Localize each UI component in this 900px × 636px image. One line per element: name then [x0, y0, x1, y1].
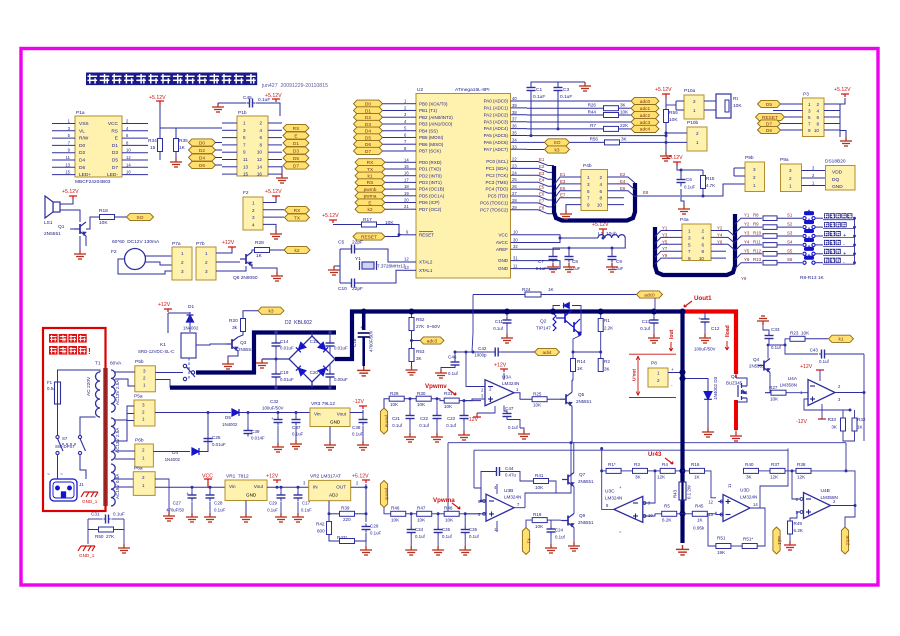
warning text 注意安全!: [49, 346, 87, 355]
svg-text:470uF/50: 470uF/50: [166, 508, 184, 513]
ground (C13): [648, 334, 660, 343]
svg-text:0.1uf: 0.1uf: [442, 534, 453, 539]
svg-text:14: 14: [404, 157, 409, 162]
svg-text:R24: R24: [522, 287, 531, 292]
svg-text:22pF: 22pF: [352, 286, 363, 292]
svg-text:3K: 3K: [621, 137, 628, 142]
svg-text:5: 5: [587, 189, 590, 194]
switch row Y2 R9 S2: [735, 227, 762, 233]
wire U3D output: [750, 449, 788, 509]
connector P1b: [237, 116, 268, 176]
svg-text:9: 9: [688, 256, 691, 261]
resistor R20 3k: [241, 319, 246, 332]
svg-text:C46: C46: [448, 355, 457, 360]
svg-text:R9: R9: [753, 222, 759, 227]
regulator VR3 79L12: [310, 408, 350, 427]
ground (C16): [357, 366, 370, 376]
resistor R1*: [606, 468, 621, 473]
svg-text:D5: D5: [293, 156, 299, 162]
svg-text:32: 32: [513, 244, 518, 249]
svg-text:C10: C10: [338, 286, 347, 292]
resistor R24 1K: [525, 292, 541, 297]
capacitor C9: [608, 254, 617, 263]
svg-text:R14: R14: [577, 359, 586, 364]
svg-text:C19: C19: [280, 370, 289, 375]
svg-text:37: 37: [512, 117, 517, 122]
transformer secondary winding 1: [111, 370, 115, 412]
P8 wires: [668, 372, 683, 374]
svg-text:R27: R27: [769, 385, 778, 390]
svg-text:VL: VL: [79, 128, 85, 134]
svg-text:R18: R18: [99, 208, 108, 214]
net tag E (P1b): [283, 132, 309, 139]
svg-text:k2: k2: [367, 207, 372, 213]
svg-text:1: 1: [696, 140, 699, 145]
net tag D1 (P1b): [283, 139, 309, 146]
capacitor C19: [272, 371, 281, 380]
svg-text:12K: 12K: [770, 475, 779, 480]
svg-text:2: 2: [789, 176, 792, 181]
ground under F2: [270, 230, 282, 239]
wire U3B out: [514, 507, 525, 509]
svg-text:0.1uF: 0.1uF: [533, 94, 545, 100]
svg-text:3: 3: [252, 215, 255, 220]
svg-text:0.00uF: 0.00uF: [334, 377, 348, 382]
capacitor C13: [650, 317, 659, 326]
capacitor C37: [292, 417, 301, 426]
wire adc0 node down to bus: [654, 298, 656, 311]
svg-text:R45: R45: [695, 504, 704, 509]
connector P7a: [172, 247, 192, 280]
svg-text:20: 20: [404, 198, 409, 203]
svg-text:PC1 (SDA): PC1 (SDA): [486, 166, 509, 171]
svg-text:R55: R55: [669, 110, 678, 116]
svg-text:25: 25: [512, 177, 517, 182]
svg-text:100uF/50V: 100uF/50V: [694, 347, 716, 352]
svg-text:Y5: Y5: [662, 239, 668, 244]
resistor R51*: [742, 544, 757, 549]
svg-text:P7a: P7a: [172, 241, 181, 247]
svg-text:8: 8: [599, 196, 602, 201]
svg-text:1K: 1K: [694, 475, 701, 480]
U out dimension annotation (red): [629, 354, 676, 397]
ground (C46): [435, 369, 447, 378]
capacitor C44 0.47u feedback: [494, 467, 502, 476]
svg-text:8: 8: [259, 142, 262, 147]
svg-text:10K: 10K: [417, 402, 426, 407]
svg-text:60*60 DC12V 130mA: 60*60 DC12V 130mA: [112, 239, 160, 245]
wire PA5 long line to R55 node: [527, 135, 666, 137]
net tag pwmb (vertical): [380, 481, 387, 508]
svg-text:+: +: [360, 325, 363, 330]
capacitor C7: [549, 254, 558, 263]
svg-text:14: 14: [753, 502, 758, 507]
svg-text:15: 15: [243, 172, 249, 177]
svg-text:1: 1: [252, 201, 255, 206]
capacitor C26 0.1uF: [362, 524, 371, 533]
op-amp U4A LM358N: [808, 380, 835, 406]
svg-text:C1: C1: [536, 87, 542, 93]
svg-text:Y3: Y3: [662, 232, 668, 237]
net tag D6 (P1b): [189, 161, 216, 168]
svg-text:12: 12: [257, 157, 263, 162]
svg-text:R2: R2: [604, 359, 610, 364]
wire PA0 line to adc0: [527, 100, 631, 102]
svg-text:17: 17: [404, 177, 409, 182]
svg-text:R51*: R51*: [743, 537, 753, 542]
wire U3B +input: [465, 513, 486, 515]
svg-text:R17: R17: [363, 217, 372, 223]
ground (C17): [292, 513, 304, 522]
svg-text:VSS: VSS: [79, 121, 89, 127]
svg-text:D7: D7: [293, 163, 299, 169]
svg-text:U4A: U4A: [788, 376, 798, 382]
svg-text:+: +: [186, 491, 189, 496]
ground (C33) inverted: [757, 316, 769, 325]
svg-text:PD3 (INT1): PD3 (INT1): [419, 180, 442, 185]
ground (P6a mid): [163, 512, 175, 521]
resistor R16 1K: [690, 468, 705, 473]
diode D4 1N4002: [153, 451, 190, 453]
wire feedback top 2: [474, 449, 788, 451]
svg-text:1: 1: [587, 175, 590, 180]
svg-text:E6: E6: [620, 186, 626, 191]
svg-text:D1: D1: [112, 143, 118, 149]
svg-text:+5.12V: +5.12V: [655, 87, 672, 93]
svg-text:F1: F1: [47, 380, 53, 385]
svg-text:D6: D6: [79, 165, 85, 171]
svg-text:+12V: +12V: [158, 302, 171, 308]
svg-text:D2: D2: [199, 148, 205, 154]
svg-text:35: 35: [512, 131, 517, 136]
capacitor C39 0.014F: [244, 428, 253, 437]
ground (C35): [432, 546, 444, 555]
svg-text:R12: R12: [753, 248, 762, 253]
svg-text:0.1uF: 0.1uF: [370, 531, 382, 536]
svg-text:3K: 3K: [416, 356, 423, 361]
net tag k1 (vertical bottom): [522, 528, 529, 555]
svg-text:1: 1: [789, 184, 792, 189]
svg-text:16: 16: [257, 172, 263, 177]
svg-text:2: 2: [181, 260, 184, 265]
svg-text:11: 11: [66, 155, 71, 160]
net tag adc0 (R24): [637, 291, 663, 298]
svg-text:D6: D6: [766, 128, 772, 134]
svg-text:-12V: -12V: [467, 417, 478, 423]
net tag D7 (P1b): [283, 162, 309, 169]
resistor R23 10K: [790, 336, 805, 341]
svg-text:0.01uF: 0.01uF: [280, 377, 294, 382]
svg-text:PA2 (ADC2): PA2 (ADC2): [484, 112, 509, 117]
svg-text:0.1uF: 0.1uF: [684, 185, 696, 190]
ground (C24): [545, 544, 557, 553]
svg-text:C38: C38: [352, 425, 361, 430]
svg-text:24: 24: [512, 170, 517, 175]
svg-text:10: 10: [513, 230, 518, 235]
svg-text:DQ: DQ: [832, 177, 839, 183]
ground (C26): [360, 546, 372, 555]
wire U4B +input: [790, 512, 800, 521]
net tag adc1: [631, 105, 659, 112]
U2 reset pin stub: [404, 234, 416, 236]
wire R24 feedback down: [472, 295, 473, 353]
svg-text:U3B: U3B: [504, 488, 513, 494]
svg-text:R15: R15: [706, 176, 715, 181]
wires P5b to contacts: [155, 372, 183, 374]
connector P10b: [687, 127, 707, 151]
svg-text:PB4 (SS): PB4 (SS): [419, 128, 438, 133]
ground (C32): [272, 443, 284, 452]
connector P6a: [133, 472, 155, 496]
switch row Y5 R12 S5: [735, 254, 762, 260]
svg-text:E5: E5: [560, 186, 566, 191]
svg-text:adc2: adc2: [640, 113, 651, 119]
svg-text:9: 9: [587, 203, 590, 208]
net tag SO (speaker drive): [127, 213, 154, 220]
wires P7b: [216, 249, 232, 253]
svg-text:PC4 (TDO): PC4 (TDO): [486, 187, 509, 192]
svg-text:TX: TX: [294, 215, 301, 221]
wire C33 to R23: [768, 338, 770, 340]
net tag adc2: [631, 111, 659, 118]
svg-text:16: 16: [126, 170, 131, 175]
resistor R33 3K: [841, 418, 846, 431]
svg-text:R5: R5: [664, 504, 670, 509]
svg-text:R/W: R/W: [79, 136, 89, 142]
svg-text:10K: 10K: [391, 518, 400, 523]
svg-text:P6a: P6a: [134, 466, 143, 472]
svg-text:R43: R43: [673, 489, 678, 498]
svg-text:P3: P3: [803, 92, 809, 98]
svg-text:0.1uf: 0.1uf: [469, 534, 480, 539]
svg-text:2: 2: [816, 102, 819, 107]
svg-text:AC15V 0.3A: AC15V 0.3A: [115, 473, 120, 499]
svg-text:C25: C25: [212, 435, 221, 440]
P4a pin8 pin10 wires: [711, 250, 726, 252]
svg-text:adc0: adc0: [640, 99, 651, 105]
capacitor C15: [326, 340, 335, 349]
U2 left pin stubs PD: [404, 161, 416, 163]
svg-text:0.1uF: 0.1uF: [301, 508, 312, 513]
svg-text:Y7: Y7: [662, 246, 668, 251]
svg-text:+12V: +12V: [800, 364, 813, 370]
svg-text:R23 10K: R23 10K: [790, 331, 810, 336]
svg-text:GND_1: GND_1: [82, 499, 98, 504]
svg-text:+: +: [843, 251, 846, 257]
svg-text:Ur43: Ur43: [648, 452, 662, 458]
svg-text:U3A: U3A: [502, 375, 512, 381]
svg-text:26: 26: [512, 184, 517, 189]
svg-text:Q4: Q4: [753, 357, 760, 362]
svg-text:0.1uF: 0.1uF: [352, 432, 364, 437]
resistor R25 10K: [532, 397, 547, 402]
bus Y collector left (thick): [655, 214, 735, 275]
svg-text:adc3: adc3: [427, 338, 438, 344]
svg-text:1N4002: 1N4002: [183, 326, 199, 331]
svg-text:adc2: adc2: [846, 536, 851, 546]
svg-text:-12V: -12V: [353, 399, 364, 405]
svg-text:Y4: Y4: [744, 239, 750, 244]
connector P4a: [682, 224, 711, 261]
svg-text:!: !: [88, 346, 91, 356]
svg-text:22: 22: [512, 157, 517, 162]
ground (R50 right): [118, 544, 130, 553]
svg-text:2N5551: 2N5551: [238, 347, 254, 352]
svg-text:adi4: adi4: [542, 350, 551, 356]
svg-text:Vin: Vin: [314, 412, 321, 417]
capacitor C12 100uF/50V: [704, 312, 706, 317]
svg-text:Q1: Q1: [58, 224, 65, 230]
svg-text:C32: C32: [270, 399, 279, 404]
svg-text:D0: D0: [79, 143, 85, 149]
svg-text:4: 4: [816, 109, 819, 114]
svg-text:0.1uF: 0.1uF: [536, 266, 548, 271]
svg-text:LM324N: LM324N: [605, 496, 622, 501]
resistor R26 on PA1: [527, 107, 603, 109]
svg-text:R4: R4: [662, 462, 668, 467]
svg-text:3K: 3K: [635, 475, 642, 480]
svg-text:k3: k3: [268, 309, 273, 315]
junction dots bus end: [680, 309, 686, 315]
wire Q2 collector to bus: [566, 312, 568, 314]
connector P7b: [196, 247, 216, 280]
regulator VR1 7812: [225, 480, 267, 501]
svg-text:PB5 (MOSI): PB5 (MOSI): [419, 135, 444, 140]
svg-text:Y2: Y2: [717, 226, 723, 231]
svg-text:1: 1: [142, 417, 145, 422]
svg-text:6: 6: [259, 135, 262, 140]
svg-text:16: 16: [404, 171, 409, 176]
svg-text:10K: 10K: [535, 485, 544, 490]
svg-text:R48: R48: [444, 506, 453, 511]
svg-text:LM324N: LM324N: [504, 495, 521, 500]
svg-text:0.01uF: 0.01uF: [212, 442, 226, 447]
svg-text:Q8 2N8050: Q8 2N8050: [233, 275, 258, 281]
svg-text:PC2 (TCK): PC2 (TCK): [486, 173, 509, 178]
svg-text:+: +: [698, 316, 701, 321]
svg-text:D5: D5: [112, 158, 118, 164]
thick wire AC line B: [170, 386, 336, 390]
svg-text:2: 2: [259, 121, 262, 126]
svg-text:34: 34: [512, 137, 517, 142]
svg-text:11: 11: [243, 157, 248, 162]
svg-text:6.2K: 6.2K: [794, 528, 804, 533]
capacitor C35: [434, 527, 443, 536]
svg-text:P10a: P10a: [684, 88, 696, 94]
svg-text:C44: C44: [505, 466, 514, 471]
ground (C28): [204, 513, 216, 522]
op-amp U3B LM324N: [486, 494, 514, 521]
svg-text:C27: C27: [173, 501, 182, 506]
svg-text:10K: 10K: [669, 117, 678, 123]
op-amp U3A LM324N: [485, 380, 514, 406]
svg-text:BUZ345: BUZ345: [726, 381, 743, 386]
svg-text:C5: C5: [338, 240, 344, 246]
svg-text:19K: 19K: [717, 550, 726, 555]
svg-text:2: 2: [142, 448, 145, 453]
svg-text:2: 2: [142, 410, 145, 415]
svg-text:Rt: Rt: [733, 96, 738, 102]
wire U3C -input: [643, 471, 655, 503]
resistor R3 3K: [633, 468, 648, 473]
svg-text:P4a: P4a: [680, 217, 689, 223]
svg-text:10: 10: [699, 256, 705, 261]
svg-text:Y1: Y1: [662, 226, 668, 231]
svg-text:1: 1: [688, 229, 691, 234]
svg-text:U'out: U'out: [632, 369, 638, 381]
connector P8: [648, 368, 668, 387]
svg-text:PD7 (OC2): PD7 (OC2): [419, 207, 442, 212]
svg-text:Q5: Q5: [578, 392, 585, 397]
P6b wires: [115, 450, 135, 452]
wires LS1 to Q1: [60, 199, 73, 204]
svg-text:5: 5: [808, 115, 811, 120]
svg-text:12: 12: [404, 257, 409, 262]
svg-text:LM324N: LM324N: [740, 495, 757, 500]
svg-text:14: 14: [257, 164, 263, 169]
svg-text:3K: 3K: [746, 475, 753, 480]
capacitor C17: [294, 492, 303, 501]
svg-text:10K: 10K: [533, 403, 542, 408]
svg-text:GND: GND: [330, 420, 341, 425]
svg-text:R13: R13: [753, 257, 762, 262]
svg-text:R7: R7: [590, 123, 596, 128]
svg-text:Uout1: Uout1: [694, 295, 712, 302]
P5a wires from transformer: [115, 406, 134, 420]
svg-text:C9: C9: [616, 259, 622, 264]
svg-text:R20: R20: [229, 318, 238, 324]
capacitor C42 1000p feedback: [493, 348, 501, 357]
svg-text:R42*: R42*: [337, 535, 347, 540]
svg-text:R11: R11: [753, 239, 761, 244]
svg-text:C39: C39: [251, 429, 260, 434]
svg-text:E7: E7: [539, 198, 545, 203]
svg-text:C31: C31: [91, 512, 100, 517]
svg-text:U2: U2: [417, 87, 423, 93]
svg-text:P1a: P1a: [76, 110, 85, 116]
capacitor C6: [677, 176, 686, 187]
svg-text:-12V: -12V: [796, 419, 807, 425]
svg-text:0.47u: 0.47u: [505, 473, 517, 478]
svg-text:0.1uf: 0.1uf: [448, 371, 459, 376]
svg-text:Y4: Y4: [717, 232, 723, 237]
svg-text:E6: E6: [539, 192, 545, 197]
svg-text:PB3 (AIN1/OC0): PB3 (AIN1/OC0): [419, 122, 453, 127]
svg-text:23: 23: [512, 163, 517, 168]
svg-text:R42: R42: [316, 522, 325, 527]
svg-text:P1b: P1b: [238, 110, 247, 116]
svg-text:MBCF24204B03: MBCF24204B03: [75, 179, 111, 185]
svg-text:L1 10uh: L1 10uh: [598, 231, 617, 237]
svg-text:RS: RS: [293, 126, 300, 132]
resistor R44 on PA2: [527, 114, 603, 116]
svg-text:pwmb: pwmb: [385, 488, 390, 501]
svg-text:LED-: LED-: [107, 172, 118, 178]
capacitor C38: [359, 417, 368, 426]
svg-text:C33: C33: [771, 327, 780, 332]
svg-text:k2: k2: [294, 248, 299, 254]
bridge diamond wires: [289, 336, 312, 382]
svg-text:R34: R34: [148, 138, 157, 144]
svg-text:4700F/50V: 4700F/50V: [369, 330, 374, 352]
svg-text:P4b: P4b: [583, 163, 592, 169]
svg-text:ADJ: ADJ: [329, 493, 338, 498]
svg-text:PD1 (TXD): PD1 (TXD): [419, 167, 442, 172]
resistor R14 1K: [571, 359, 576, 372]
svg-text:AC13V 2.5A: AC13V 2.5A: [115, 427, 120, 453]
capacitor C24: [547, 526, 556, 535]
bridge diode 2: [318, 342, 328, 352]
